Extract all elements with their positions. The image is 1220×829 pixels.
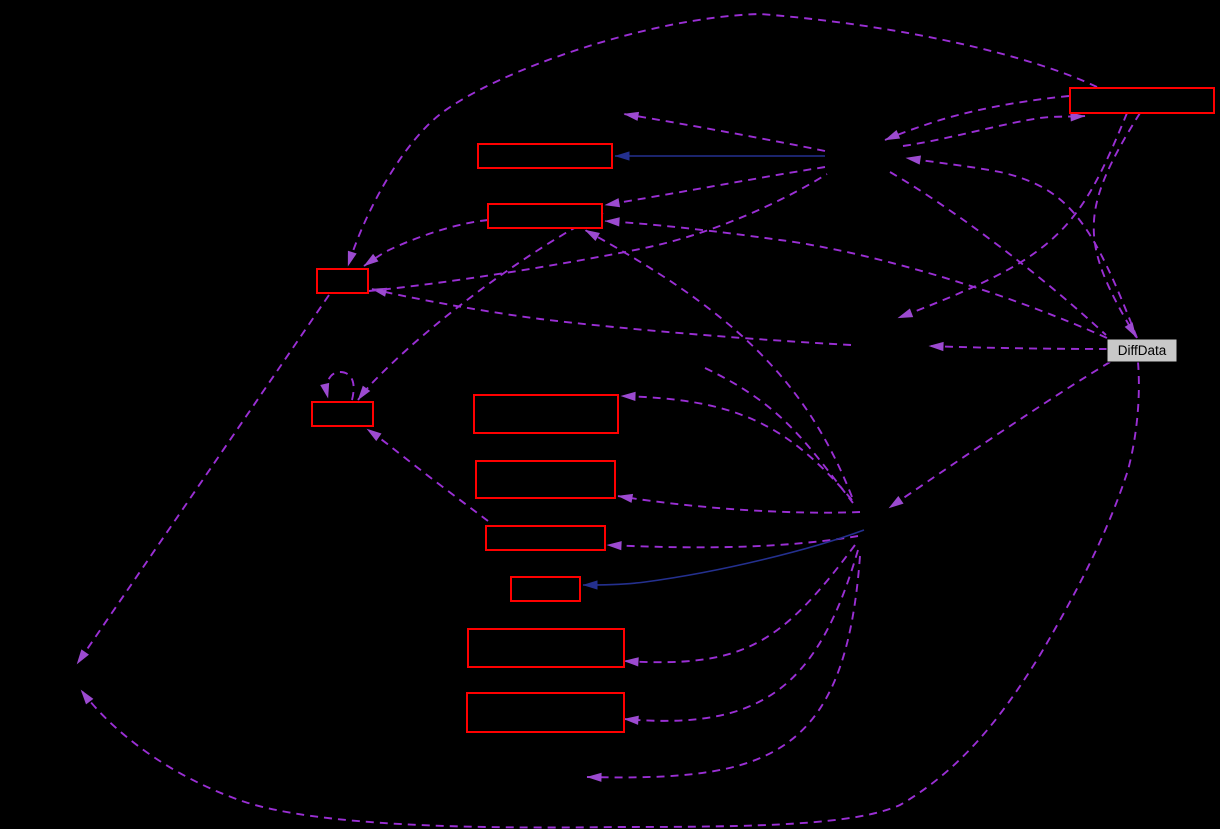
edge node B -> node D : straight diagonal <box>358 213 603 400</box>
node E red box <box>474 395 618 433</box>
edge H1 -> node B top arrow <box>605 167 825 205</box>
navy edge H1 -> node A (inheritance) <box>615 155 825 157</box>
edge DiffData -> H4 : giant loop bottom-right <box>81 362 1139 828</box>
edge H1 -> DiffData : down-right line <box>890 172 1106 335</box>
edge Hz2 -> node C : long sag line <box>372 289 851 345</box>
edge H3 -> node J <box>624 550 858 721</box>
node I red box <box>468 629 624 667</box>
edge N1 -> DiffData : S-bow at right <box>1094 113 1140 337</box>
edge node G -> node D <box>367 429 488 521</box>
navy edge H3 -> node H <box>583 530 864 585</box>
node H red box <box>511 577 580 601</box>
edge H3 -> node I <box>624 545 855 662</box>
edge N1 -> H1 : arrow into H1 top <box>885 96 1069 140</box>
node A red box <box>478 144 612 168</box>
edge Hu -> H3 <box>705 368 853 503</box>
edge H1 -> H2 : arrow up-left <box>624 114 825 151</box>
edge node C -> H1 : up-right curve <box>369 174 827 291</box>
node D red box <box>312 402 373 426</box>
edge DiffData -> Hz2 : short flat line <box>929 346 1107 349</box>
node C red box <box>317 269 368 293</box>
edge DiffData -> H1 : curve up-left <box>906 158 1137 338</box>
edge H1 -> N1 : into N1 bottom-left corner <box>903 116 1085 146</box>
node B red box <box>488 204 602 228</box>
edge H3 -> bottom-left arrow <box>587 556 860 777</box>
edge DiffData -> node B lower arrow <box>605 221 1107 338</box>
node G red box <box>486 526 605 550</box>
node DiffData grey box <box>1107 339 1177 362</box>
edge DiffData -> H3 <box>889 362 1110 508</box>
node N1 top-right red box <box>1070 88 1214 113</box>
self loop on node D <box>327 372 354 400</box>
edge H3 -> node E <box>621 396 852 500</box>
edge H3 -> node F <box>618 496 860 513</box>
edge H3 -> node G <box>607 536 858 547</box>
edge node C -> H4 : long straight line lower-left <box>77 295 329 664</box>
node F red box <box>476 461 615 498</box>
svg-text:DiffData: DiffData <box>1118 343 1167 358</box>
edge H3 -> node B bottom arrow <box>585 230 852 497</box>
edge N1 -> Hy : bow down-left <box>898 113 1127 318</box>
edge N1 -> node C : big arc over the top <box>348 14 1097 266</box>
node J red box <box>467 693 624 732</box>
edge node B -> node C : short curve <box>364 220 488 266</box>
